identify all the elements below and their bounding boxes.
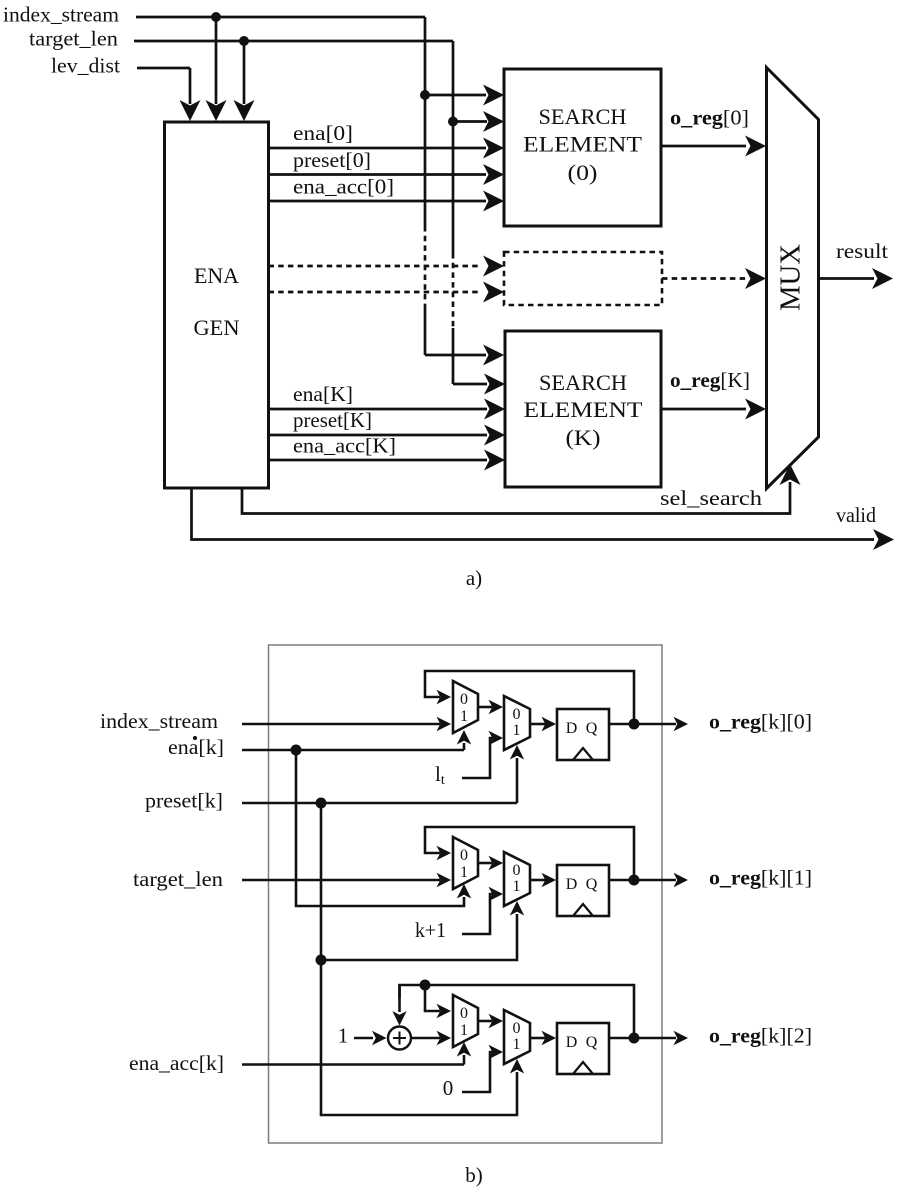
- svg-text:D: D: [566, 876, 578, 893]
- svg-text:(0): (0): [568, 160, 598, 185]
- svg-text:lt: lt: [435, 762, 445, 788]
- svg-text:0: 0: [443, 1076, 454, 1100]
- svg-text:D: D: [566, 720, 578, 737]
- svg-text:MUX: MUX: [776, 244, 807, 311]
- svg-text:0: 0: [513, 1020, 521, 1037]
- svg-text:ena_acc[0]: ena_acc[0]: [293, 175, 394, 199]
- svg-text:D: D: [566, 1034, 578, 1051]
- svg-text:Q: Q: [586, 876, 598, 893]
- svg-text:k+1: k+1: [415, 918, 446, 942]
- svg-text:target_len: target_len: [29, 27, 119, 51]
- svg-text:SEARCH: SEARCH: [539, 104, 627, 129]
- svg-text:1: 1: [460, 864, 468, 881]
- svg-text:0: 0: [460, 691, 468, 708]
- svg-text:result: result: [836, 239, 888, 263]
- svg-text:preset[K]: preset[K]: [293, 408, 372, 432]
- svg-text:1: 1: [513, 1036, 521, 1053]
- svg-text:Q: Q: [586, 720, 598, 737]
- svg-text:1: 1: [460, 708, 468, 725]
- svg-text:GEN: GEN: [194, 315, 240, 340]
- svg-text:valid: valid: [836, 503, 876, 527]
- svg-text:ena_acc[K]: ena_acc[K]: [293, 434, 396, 458]
- svg-text:o_reg[k][2]: o_reg[k][2]: [709, 1024, 812, 1048]
- svg-text:preset[k]: preset[k]: [145, 789, 223, 813]
- svg-text:b): b): [465, 1163, 483, 1187]
- svg-text:index_stream: index_stream: [3, 3, 119, 27]
- svg-text:0: 0: [460, 1005, 468, 1022]
- svg-text:o_reg[k][1]: o_reg[k][1]: [709, 866, 812, 890]
- svg-text:0: 0: [460, 847, 468, 864]
- svg-text:SEARCH: SEARCH: [539, 370, 627, 395]
- svg-text:1: 1: [513, 878, 521, 895]
- svg-text:0: 0: [513, 862, 521, 879]
- svg-text:ENA: ENA: [194, 263, 239, 288]
- svg-text:1: 1: [338, 1024, 349, 1048]
- svg-text:ena[K]: ena[K]: [293, 382, 353, 406]
- svg-text:ELEMENT: ELEMENT: [524, 397, 644, 422]
- svg-text:target_len: target_len: [133, 867, 224, 891]
- svg-text:ena[0]: ena[0]: [293, 121, 353, 145]
- svg-text:o_reg[k][0]: o_reg[k][0]: [709, 710, 812, 734]
- svg-text:Q: Q: [586, 1034, 598, 1051]
- svg-text:1: 1: [513, 722, 521, 739]
- svg-text:lev_dist: lev_dist: [51, 54, 120, 78]
- svg-text:preset[0]: preset[0]: [293, 148, 371, 172]
- svg-text:ena_acc[k]: ena_acc[k]: [129, 1051, 224, 1075]
- svg-text:1: 1: [460, 1022, 468, 1039]
- svg-text:ELEMENT: ELEMENT: [523, 132, 643, 157]
- svg-text:o_reg[0]: o_reg[0]: [670, 106, 749, 130]
- svg-text:index_stream: index_stream: [100, 709, 218, 733]
- svg-text:o_reg[K]: o_reg[K]: [670, 368, 750, 392]
- svg-text:(K): (K): [566, 425, 601, 450]
- svg-text:sel_search: sel_search: [660, 486, 763, 510]
- svg-text:a): a): [466, 566, 482, 590]
- svg-text:0: 0: [513, 706, 521, 723]
